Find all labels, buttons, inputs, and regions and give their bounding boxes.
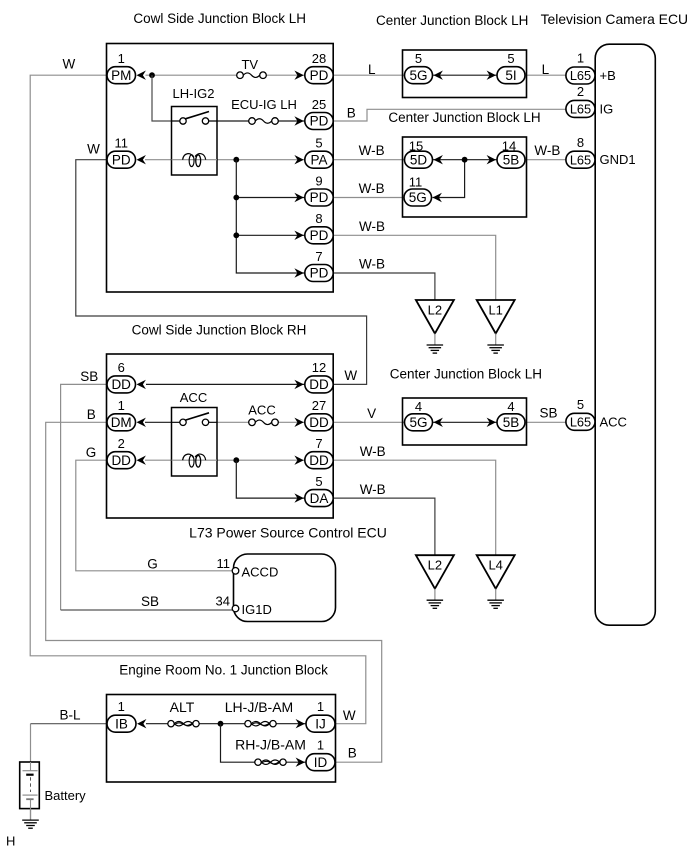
arrow into IB: [137, 719, 146, 728]
svg-text:L65: L65: [570, 415, 591, 430]
junction dot engine room: [218, 721, 224, 727]
svg-text:PD: PD: [310, 190, 329, 205]
connector ID pin 1: [306, 754, 335, 771]
svg-text:PD: PD: [310, 228, 329, 243]
connector DD pin 7: [305, 452, 333, 469]
svg-text:LH-J/B-AM: LH-J/B-AM: [225, 699, 293, 715]
ground under battery: [22, 809, 39, 829]
svg-text:W: W: [87, 142, 100, 157]
svg-text:9: 9: [315, 173, 322, 188]
wire branch to PD9: [236, 197, 304, 199]
svg-text:14: 14: [502, 138, 516, 153]
svg-text:8: 8: [577, 135, 584, 150]
wire relay coil to PA5: [217, 159, 305, 161]
svg-text:2: 2: [118, 436, 125, 451]
svg-text:12: 12: [312, 360, 326, 375]
connector 5G pin 5: [405, 67, 433, 84]
svg-text:5D: 5D: [410, 152, 428, 167]
wire 5G to 5I: [433, 74, 498, 76]
svg-text:TV: TV: [241, 57, 258, 72]
svg-text:5G: 5G: [409, 68, 427, 83]
arrow into PM1: [137, 71, 146, 80]
wire W-B: DD7 to ground L4: [333, 460, 496, 555]
svg-text:Center Junction Block LH: Center Junction Block LH: [376, 13, 528, 28]
svg-text:PD: PD: [310, 68, 329, 83]
connector L65 pin 2: [566, 100, 595, 117]
svg-text:15: 15: [409, 138, 423, 153]
svg-text:W-B: W-B: [360, 482, 386, 497]
fusible link LH-J/B-AM: [245, 721, 276, 727]
svg-text:DM: DM: [111, 415, 132, 430]
svg-text:5G: 5G: [409, 415, 427, 430]
svg-text:Cowl Side Junction Block RH: Cowl Side Junction Block RH: [132, 323, 307, 338]
wire relay to ACC fuse: [217, 421, 249, 423]
svg-text:B-L: B-L: [59, 708, 81, 723]
ECU box: L73 Power Source Control ECU: [234, 554, 336, 622]
svg-text:W-B: W-B: [359, 143, 385, 158]
wire W-B: PD9 to 5G pin11: [333, 197, 404, 199]
connector 5I pin 5: [497, 67, 525, 84]
wire W-B: PD8 to ground L1: [333, 235, 496, 300]
fusible link ALT: [168, 721, 199, 727]
wire RH-J/B-AM to ID: [286, 761, 306, 763]
arrow into 5D: [434, 155, 443, 164]
svg-text:G: G: [86, 445, 97, 460]
svg-text:ALT: ALT: [170, 699, 195, 715]
svg-text:6: 6: [118, 360, 125, 375]
svg-text:L1: L1: [488, 303, 502, 318]
svg-text:5I: 5I: [505, 68, 516, 83]
wire PD11 to relay coil: [145, 159, 172, 161]
wire branch down to RH-J/B-AM: [221, 724, 255, 763]
connector DD pin 2: [107, 452, 136, 469]
arrow into PD7: [294, 268, 303, 277]
wire 5G pin4 to 5B pin4: [433, 421, 498, 423]
svg-text:1: 1: [317, 699, 324, 714]
connector DD pin 27: [305, 414, 333, 431]
svg-text:5B: 5B: [503, 415, 520, 430]
junction block box: Cowl Side Junction Block RH: [107, 354, 334, 518]
junction block box: Center Junction Block LH second: [403, 137, 527, 217]
fuse TV: [237, 72, 267, 79]
svg-text:L: L: [368, 62, 376, 77]
junction dot row3: [233, 157, 239, 163]
svg-text:SB: SB: [141, 594, 159, 609]
svg-text:1: 1: [118, 51, 125, 66]
wire branch to PD8: [236, 234, 304, 236]
svg-text:5B: 5B: [503, 152, 520, 167]
junction dot row1: [149, 72, 155, 78]
svg-text:W: W: [343, 708, 356, 723]
svg-text:B: B: [348, 746, 357, 761]
svg-text:W-B: W-B: [359, 219, 385, 234]
svg-text:IJ: IJ: [315, 716, 326, 731]
connector 5B pin 4: [497, 414, 525, 431]
svg-text:GND1: GND1: [600, 152, 636, 167]
svg-text:V: V: [367, 406, 376, 421]
svg-text:28: 28: [312, 51, 326, 66]
wire LH-J/B-AM to IJ: [276, 723, 306, 725]
junction dot between 5D and 5B: [462, 157, 468, 163]
svg-text:G: G: [147, 557, 158, 572]
wire IB to ALT link: [146, 723, 168, 725]
wire TV fuse to PD28: [266, 74, 305, 76]
arrow into PD9: [294, 193, 303, 202]
connector PD pin 8: [305, 227, 333, 244]
svg-text:SB: SB: [80, 369, 98, 384]
svg-text:LH-IG2: LH-IG2: [173, 86, 215, 101]
arrow into ID: [296, 758, 305, 767]
wire SB: 5B pin4 to L65 pin5: [525, 421, 566, 423]
arrow into PD11: [137, 155, 146, 164]
ECU box: Television Camera ECU: [595, 44, 655, 625]
arrow into 5G pin4: [434, 418, 443, 427]
ground symbol under L4: [487, 589, 504, 609]
svg-text:+B: +B: [600, 68, 616, 83]
connector DA pin 5: [305, 490, 333, 507]
wire W-B: PD7 to ground L2: [333, 273, 435, 300]
svg-text:25: 25: [312, 97, 326, 112]
junction block box: Center Junction Block LH third: [403, 398, 527, 445]
svg-text:1: 1: [577, 51, 584, 66]
svg-text:27: 27: [312, 398, 326, 413]
arrow into 5I: [487, 71, 496, 80]
svg-text:4: 4: [415, 399, 422, 414]
svg-text:W-B: W-B: [360, 444, 386, 459]
connector 5D pin 15: [405, 151, 433, 168]
fuse ACC: [249, 419, 279, 426]
connector 5B pin 14: [497, 151, 525, 168]
arrow into 5G pin11: [433, 193, 442, 202]
wire W-B: 5B to L65 pin8: [525, 159, 566, 161]
svg-text:ACC: ACC: [180, 390, 207, 405]
wire DD2 to relay coil: [145, 459, 172, 461]
arrow into PA5: [294, 155, 303, 164]
svg-text:5: 5: [577, 397, 584, 412]
svg-text:PD: PD: [310, 266, 329, 281]
connector DD pin 12: [305, 376, 333, 393]
ground symbol under L1: [487, 334, 504, 354]
svg-text:W: W: [63, 57, 76, 72]
svg-text:2: 2: [577, 84, 584, 99]
junction block box: Center Junction Block LH top: [403, 50, 527, 98]
wire row1 PM1 to TV fuse: [146, 74, 237, 76]
wire DM1 to ACC relay: [145, 421, 172, 423]
arrow into DD6: [137, 380, 146, 389]
arrow into PD8: [294, 231, 303, 240]
wire DD6 to DD12: [146, 383, 305, 385]
wire B net: DM1 - ID1: [46, 422, 382, 762]
ground triangle L4: [477, 555, 515, 589]
svg-text:Battery: Battery: [45, 788, 87, 803]
svg-text:PA: PA: [310, 152, 327, 167]
connector L65 pin 1: [566, 67, 595, 84]
svg-text:DD: DD: [111, 377, 131, 392]
connector 5G pin 4: [405, 414, 433, 431]
ground triangle L2 lower: [416, 555, 454, 589]
svg-text:W-B: W-B: [359, 181, 385, 196]
svg-text:Engine Room No. 1 Junction Blo: Engine Room No. 1 Junction Block: [119, 663, 328, 678]
svg-text:PD: PD: [112, 152, 131, 167]
svg-text:8: 8: [315, 211, 322, 226]
svg-text:L73 Power Source Control ECU: L73 Power Source Control ECU: [189, 525, 387, 541]
connector DM pin 1: [107, 414, 136, 431]
svg-text:W-B: W-B: [359, 257, 385, 272]
svg-text:IG1D: IG1D: [242, 602, 272, 617]
svg-text:5: 5: [315, 474, 322, 489]
connector DD pin 6: [107, 376, 136, 393]
svg-text:L2: L2: [428, 303, 442, 318]
svg-text:11: 11: [114, 136, 128, 151]
wire ACC fuse to DD27: [278, 421, 305, 423]
connector IB pin 1: [107, 715, 136, 732]
svg-text:L65: L65: [570, 102, 591, 117]
ground symbol under L2: [427, 334, 444, 354]
wire SB net: across to IG1D: [61, 609, 236, 611]
svg-text:ACCD: ACCD: [242, 565, 279, 580]
connector PD pin 28: [305, 67, 333, 84]
junction block box: Cowl Side Junction Block LH: [107, 44, 334, 293]
arrow into 5B: [487, 155, 496, 164]
junction dot DD7 row: [233, 457, 239, 463]
svg-text:ECU-IG LH: ECU-IG LH: [231, 97, 297, 112]
wire ALT to LH-J/B-AM link: [199, 723, 244, 725]
arrow into DA5: [294, 493, 303, 502]
svg-text:5: 5: [415, 51, 422, 66]
svg-text:IB: IB: [115, 716, 128, 731]
svg-text:1: 1: [317, 738, 324, 753]
svg-text:W-B: W-B: [534, 143, 560, 158]
junction dot row4: [233, 195, 239, 201]
svg-text:Center Junction Block LH: Center Junction Block LH: [390, 366, 542, 381]
arrow into DD12: [294, 380, 303, 389]
svg-text:L4: L4: [488, 558, 502, 573]
arrow into DD7: [294, 456, 303, 465]
arrow into DD27: [294, 418, 303, 427]
battery: [20, 762, 40, 809]
wire L: PD28 to 5G: [333, 74, 404, 76]
connector 5G pin 11: [404, 189, 432, 206]
connector PA pin 5: [305, 151, 333, 168]
svg-text:Center Junction Block LH: Center Junction Block LH: [388, 110, 540, 125]
wire relay coil to DD7: [217, 459, 305, 461]
svg-text:11: 11: [217, 556, 231, 571]
svg-text:DD: DD: [111, 453, 131, 468]
wire SB net: DD6 down left side: [61, 384, 107, 610]
svg-text:DA: DA: [310, 491, 329, 506]
wire branch down to DA5: [236, 460, 304, 498]
wire battery to ground: [30, 809, 32, 821]
svg-text:34: 34: [216, 594, 230, 609]
wire B: PD25 to L65 pin2: [333, 109, 566, 121]
ground symbol under L2 lower: [427, 589, 444, 609]
svg-text:7: 7: [315, 436, 322, 451]
svg-text:W: W: [344, 368, 357, 383]
relay ACC: [172, 408, 218, 477]
svg-text:DD: DD: [309, 415, 329, 430]
svg-text:Television Camera ECU: Television Camera ECU: [541, 11, 688, 27]
svg-text:7: 7: [315, 249, 322, 264]
arrow into IJ: [296, 719, 305, 728]
wire W net: PD11 - DD12: [76, 160, 367, 385]
svg-text:5: 5: [507, 51, 514, 66]
pin circle ACCD pin 11: [232, 568, 239, 575]
connector PM pin 1: [107, 67, 136, 84]
wire ECU-IG LH fuse to PD25: [278, 120, 305, 122]
svg-text:DD: DD: [309, 453, 329, 468]
svg-text:L65: L65: [570, 152, 591, 167]
wire branch down to PD7: [236, 160, 304, 273]
arrow into DD2: [137, 456, 146, 465]
svg-text:PM: PM: [111, 68, 131, 83]
wire G net: DD2 - ACCD: [76, 460, 236, 571]
junction dot row5: [233, 232, 239, 238]
svg-text:5: 5: [315, 136, 322, 151]
connector PD pin 7: [305, 265, 333, 282]
connector L65 pin 8: [566, 151, 595, 168]
arrow into DM1: [137, 418, 146, 427]
connector PD pin 11: [107, 151, 136, 168]
connector PD pin 25: [305, 113, 333, 130]
svg-text:1: 1: [118, 699, 125, 714]
fuse ECU-IG LH: [249, 118, 279, 125]
wire V: DD27 to 5G pin4: [333, 421, 404, 423]
arrow into 5B pin4: [487, 418, 496, 427]
wire W net: PM1 - IJ1 (down left side, across bottom): [30, 75, 366, 724]
pin circle IG1D pin 34: [232, 605, 239, 612]
connector PD pin 9: [305, 189, 333, 206]
svg-text:L65: L65: [570, 68, 591, 83]
svg-text:L: L: [542, 62, 550, 77]
wire feed to LH-IG2 relay contact: [152, 75, 172, 121]
svg-text:ACC: ACC: [248, 403, 275, 418]
svg-text:B: B: [347, 106, 356, 121]
wire W-B: DA5 to ground L2 lower: [333, 498, 435, 555]
wire B-L: across to IB: [31, 723, 108, 725]
wire 5D to 5B: [433, 159, 498, 161]
connector L65 pin 5: [566, 413, 595, 430]
svg-text:5G: 5G: [409, 190, 427, 205]
svg-text:H: H: [6, 833, 15, 848]
svg-text:RH-J/B-AM: RH-J/B-AM: [235, 737, 306, 753]
wire B-L: battery vertical: [30, 724, 32, 762]
svg-text:IG: IG: [600, 101, 614, 116]
fusible link RH-J/B-AM: [255, 759, 286, 765]
svg-text:1: 1: [118, 398, 125, 413]
ground triangle L2: [416, 300, 454, 334]
svg-text:B: B: [87, 407, 96, 422]
svg-text:DD: DD: [309, 377, 329, 392]
junction block box: Engine Room No. 1 Junction Block: [107, 695, 336, 783]
wire relay to ECU-IG LH fuse: [217, 120, 249, 122]
wire W-B: PA5 to 5D: [333, 159, 404, 161]
svg-text:L2: L2: [428, 558, 442, 573]
arrow into PD25: [294, 116, 303, 125]
arrow into PD28: [294, 71, 303, 80]
arrow into 5G: [434, 71, 443, 80]
svg-text:Cowl Side Junction Block LH: Cowl Side Junction Block LH: [133, 11, 306, 26]
svg-text:4: 4: [507, 399, 514, 414]
ground triangle L1: [477, 300, 515, 334]
svg-text:SB: SB: [539, 406, 557, 421]
svg-text:PD: PD: [310, 114, 329, 129]
connector IJ pin 1: [306, 715, 335, 732]
svg-text:ACC: ACC: [600, 414, 627, 429]
relay LH-IG2: [172, 107, 218, 176]
svg-text:11: 11: [409, 174, 423, 189]
wire L: 5I to L65 pin1: [525, 74, 566, 76]
wire branch dot down to 5G pin11: [433, 160, 465, 198]
svg-text:ID: ID: [314, 755, 328, 770]
